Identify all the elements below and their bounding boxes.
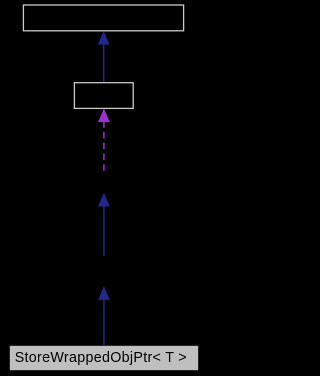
node: top base-class box (empty label) [23, 5, 183, 31]
node: StoreWrappedObjPtr< T > (current class, filled) [9, 345, 198, 370]
wire: inheritance arrow 1 (solid) [98, 31, 110, 83]
wire: inheritance arrow 3 (solid) [98, 286, 110, 345]
svg-text:StoreWrappedObjPtr< T >: StoreWrappedObjPtr< T > [15, 350, 187, 366]
wire: inheritance arrow 2 (solid) [98, 193, 110, 256]
wire: usage arrow (dashed purple) [98, 108, 110, 171]
node: middle box (empty label) [74, 83, 133, 109]
